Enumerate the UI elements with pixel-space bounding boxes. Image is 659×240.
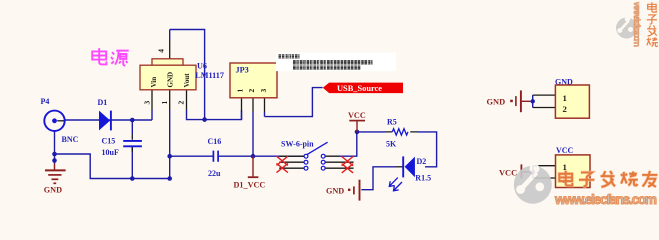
svg-text:2: 2 [247, 89, 256, 93]
svg-text:Vin: Vin [150, 77, 158, 88]
svg-text:P4: P4 [41, 97, 50, 106]
svg-text:R5: R5 [387, 117, 397, 126]
svg-text:BNC: BNC [62, 135, 79, 144]
svg-text:VCC: VCC [348, 111, 366, 120]
svg-text:GND: GND [487, 98, 506, 107]
svg-text:www.elecfans.com: www.elecfans.com [632, 1, 642, 47]
svg-text:R1.5: R1.5 [415, 174, 431, 183]
svg-text:D1_VCC: D1_VCC [234, 181, 266, 190]
svg-text:www.elecfans.com: www.elecfans.com [554, 192, 657, 207]
svg-text:10uF: 10uF [102, 148, 119, 157]
svg-text:2: 2 [563, 104, 568, 114]
svg-text:C15: C15 [102, 137, 116, 146]
svg-text:C16: C16 [208, 137, 222, 146]
svg-text:GND: GND [166, 72, 174, 88]
svg-text:Vout: Vout [183, 73, 191, 88]
svg-text:LM1117: LM1117 [195, 71, 224, 80]
svg-text:VCC: VCC [556, 146, 574, 155]
svg-text:1: 1 [235, 89, 244, 93]
svg-text:1: 1 [160, 101, 169, 105]
svg-text:4: 4 [157, 49, 166, 53]
svg-text:D1: D1 [98, 98, 108, 107]
svg-text:VCC: VCC [499, 169, 517, 178]
svg-text:SW-6-pin: SW-6-pin [281, 139, 314, 148]
svg-text:D2: D2 [417, 157, 427, 166]
svg-text:JP3: JP3 [236, 65, 249, 74]
svg-text:1: 1 [563, 162, 567, 172]
svg-text:GND: GND [44, 185, 62, 194]
svg-text:5K: 5K [386, 139, 397, 148]
svg-text:3: 3 [259, 89, 268, 93]
svg-text:1: 1 [563, 93, 567, 103]
svg-text:U6: U6 [197, 62, 207, 71]
svg-text:2: 2 [176, 101, 185, 105]
svg-text:3: 3 [143, 101, 152, 105]
svg-text:USB_Source: USB_Source [337, 84, 382, 93]
svg-text:GND: GND [326, 187, 344, 196]
svg-text:22u: 22u [208, 169, 221, 178]
